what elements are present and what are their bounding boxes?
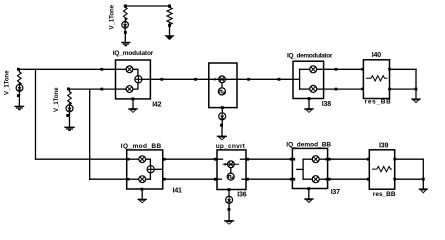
wire mod_BB to up_cnvrt I [163, 158, 217, 160]
mixer (modulator I) [126, 66, 133, 73]
oscillator (up_cnvrt) [227, 173, 234, 180]
node top bench right [168, 5, 171, 8]
resistor R load (top bench) [167, 6, 172, 36]
wire to IQ_mod_BB in1 [36, 158, 127, 160]
node a2 [214, 158, 217, 161]
node a4 [214, 178, 217, 181]
wire res_BB I39 out Q [395, 178, 424, 180]
wire up_cnvrt to source [228, 190, 230, 197]
node mod_BB bottom [141, 188, 144, 191]
wire RF [150, 78, 293, 80]
node RF c [278, 78, 281, 81]
svg-text:IQ_demod_BB: IQ_demod_BB [286, 141, 331, 148]
node RF b [247, 78, 250, 81]
wire right join top [415, 69, 417, 99]
ground (modulator) [129, 109, 137, 113]
source SRC3 (top bench V_1Tone) [122, 6, 129, 42]
wire top bench [125, 5, 169, 7]
svg-text:I40: I40 [372, 52, 381, 59]
wire up_cnvrt to demod_BB Q [246, 178, 292, 180]
ground (below SRC1) [15, 106, 23, 109]
svg-text:up_cnvrt: up_cnvrt [216, 143, 246, 150]
wire vertical I down [35, 69, 37, 159]
ground (bottom right) [419, 189, 427, 193]
wire demod out Q [324, 88, 364, 90]
node up_cnvrt bottom [228, 188, 231, 191]
wire vertical Q down [89, 89, 91, 179]
oscillator (down conv) [218, 88, 225, 95]
node b3 [246, 178, 249, 181]
wire down conv to LO source [221, 108, 223, 113]
wire up_cnvrt to demod_BB I [246, 158, 292, 160]
res_BB I39 [369, 150, 394, 189]
wire res_BB out Q [390, 88, 417, 90]
resistor (res_BB bottom) [372, 166, 391, 171]
node modulator pin1 [100, 68, 103, 71]
node modulator bottom [131, 97, 134, 100]
svg-text:I36: I36 [237, 192, 246, 199]
node down conv bottom [221, 106, 224, 109]
svg-text:I37: I37 [331, 189, 340, 196]
ground (below SRC2) [65, 127, 74, 130]
ground (below LO source) [218, 136, 227, 140]
node d2 [393, 178, 396, 181]
svg-text:IQ_demodulator: IQ_demodulator [287, 53, 333, 60]
node RF a [194, 78, 197, 81]
node a3 [163, 178, 166, 181]
mixer (mod_BB I) [139, 156, 146, 163]
node c3 [328, 178, 331, 181]
node res out Q [388, 88, 391, 91]
wire res_BB I39 out I [395, 158, 424, 160]
node demod bottom [308, 97, 311, 100]
mixer (demod_BB I) [312, 156, 319, 163]
node d3 [422, 178, 425, 181]
mixer (down conv) [219, 76, 226, 83]
node c2 [367, 158, 370, 161]
node modulator out pin [160, 78, 163, 81]
svg-text:res_BB: res_BB [365, 98, 392, 105]
svg-text:IQ_mod_BB: IQ_mod_BB [121, 143, 162, 150]
node demod_BB bottom [307, 187, 310, 190]
wire mod_BB ground stem [141, 189, 143, 199]
mixer (up_cnvrt) [223, 163, 238, 165]
svg-text:IQ_modulator: IQ_modulator [113, 50, 154, 57]
summer (mod_BB) [147, 166, 154, 173]
node res_BB in Q [361, 88, 364, 91]
down converter box (top middle) [209, 63, 237, 108]
node demod out I [335, 68, 338, 71]
node b2 [290, 158, 293, 161]
summer (modulator) [135, 76, 142, 83]
ground (below R load) [166, 36, 174, 40]
ground (demodulator) [305, 109, 313, 113]
source SRC1 (left V_1Tone) [16, 68, 23, 107]
wire modulator ground stem [132, 99, 134, 109]
wire demod ground stem [308, 99, 310, 109]
svg-text:res_BB: res_BB [373, 191, 396, 198]
node c1 [328, 158, 331, 161]
wire to IQ_mod_BB in2 [90, 178, 127, 180]
IQ_mod_BB I41 [127, 150, 163, 189]
node b1 [246, 158, 249, 161]
ground (demod_BB) [305, 199, 313, 203]
mixer (demod_BB Q) [312, 176, 319, 183]
IQ_demodulator I38 [293, 61, 324, 98]
wire Q input [68, 88, 115, 90]
ground (below SRC3) [122, 43, 130, 46]
wire demod out I [324, 68, 364, 70]
mixer (demod I) [310, 66, 317, 73]
node a1 [163, 158, 166, 161]
node modulator pin2 [100, 88, 103, 91]
node res out I [388, 68, 391, 71]
ground (mod_BB) [138, 199, 146, 203]
up_cnvrt I36 [217, 150, 246, 190]
node b4 [290, 178, 293, 181]
node right join top [415, 88, 418, 91]
wire demod_BB to res_BB I [328, 158, 370, 160]
ground (top right) [412, 99, 420, 103]
svg-text:I42: I42 [152, 102, 161, 109]
node res_BB in I [361, 68, 364, 71]
mixer (mod_BB Q) [139, 176, 146, 183]
ground (below source) [225, 221, 234, 224]
wire demod_BB ground stem [308, 189, 310, 199]
wire I input [19, 68, 116, 70]
res_BB I40 [363, 60, 389, 99]
node d1 [393, 158, 396, 161]
node c4 [367, 178, 370, 181]
node top bench left [124, 5, 127, 8]
wire demod_BB to res_BB Q [328, 178, 370, 180]
wire right join bottom [422, 159, 424, 189]
svg-text:I38: I38 [322, 101, 331, 108]
node demod out Q [335, 88, 338, 91]
wire res_BB out I [390, 68, 417, 70]
svg-text:V_1Tone: V_1Tone [54, 87, 60, 112]
mixer (modulator Q) [126, 86, 133, 93]
source (LO below down conv) [219, 113, 226, 136]
svg-text:V_1Tone: V_1Tone [4, 70, 10, 95]
resistor (res_BB top) [366, 76, 387, 81]
source SRC2 (left lower V_1Tone) [66, 88, 73, 128]
source (below up_cnvrt) [226, 196, 233, 220]
svg-text:I41: I41 [173, 187, 182, 194]
mixer (demod Q) [310, 85, 317, 92]
svg-text:I39: I39 [379, 143, 388, 150]
IQ_demod_BB I37 [292, 148, 328, 188]
svg-text:V_1Tone: V_1Tone [109, 4, 115, 29]
IQ_modulator I42 [116, 60, 151, 99]
wire mod_BB to up_cnvrt Q [163, 178, 217, 180]
